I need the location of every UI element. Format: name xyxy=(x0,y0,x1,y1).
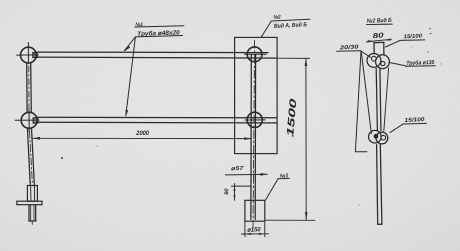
lug top edge xyxy=(374,41,384,43)
dim o57 leader line xyxy=(225,173,267,176)
speck xyxy=(429,28,431,30)
post tube below hinge 2: right edge xyxy=(32,128,35,186)
rail 2 top edge xyxy=(38,116,278,119)
speck xyxy=(358,204,359,205)
dim 60 extension top xyxy=(231,185,250,187)
top hinge hole right xyxy=(381,61,385,65)
dim 1500 vertical line xyxy=(305,58,307,219)
dim o150 left arrow xyxy=(245,233,251,235)
label 3 underline xyxy=(278,177,289,179)
weld tail line left (to base) xyxy=(355,51,361,151)
leader truba 130 to hinge xyxy=(389,62,406,66)
buried tube inner wall left xyxy=(30,205,32,221)
dim 80 right arrow xyxy=(384,39,391,41)
label 1 leader to rail 2 xyxy=(126,37,136,116)
top hinge hole left xyxy=(372,56,377,61)
post below lower hinge right edge xyxy=(380,145,382,225)
label 2 leader to plate xyxy=(261,21,271,37)
dim 2000 line xyxy=(33,137,251,139)
vertical centerline of middle assembly xyxy=(253,40,255,231)
buried tube bottom cap xyxy=(29,220,36,222)
leader 15/100 top to lug xyxy=(386,40,401,47)
speck xyxy=(440,63,441,64)
dim o150 extension left xyxy=(244,222,246,237)
label 2 underline xyxy=(271,19,310,21)
plate hinge circle 1 xyxy=(247,47,262,62)
post hidden inside sleeve: right edge xyxy=(33,186,35,201)
label 1 arrow on rail 1 xyxy=(124,46,131,52)
label 15/100 top underline xyxy=(400,39,425,42)
hinge 2 horizontal centerline xyxy=(15,119,39,121)
plate hinge 1 horizontal centerline xyxy=(244,53,266,55)
centerline tick below tube xyxy=(31,222,33,225)
middle ground sleeve (part 3) xyxy=(245,200,265,221)
post tube between hinges: left edge xyxy=(26,63,28,113)
dim 2000 right arrow xyxy=(244,137,251,140)
label 15/100 lower underline xyxy=(403,122,426,125)
weld tail line right (to lower hinge) xyxy=(361,51,371,133)
top hinge barrel left lobe xyxy=(367,54,381,68)
speck xyxy=(411,46,412,47)
label 1 leader to rail 1 xyxy=(125,37,136,51)
lower hinge hole right xyxy=(381,135,386,140)
inner tube right edge (plate to sleeve) xyxy=(254,55,256,219)
hinge plate rectangle xyxy=(235,37,278,153)
weld leader 20/30 to top hinge xyxy=(361,51,371,57)
post tube below hinge 2: left edge xyxy=(27,128,30,186)
label 1 lower underline xyxy=(135,36,182,37)
lower hinge barrel right lobe xyxy=(376,132,388,144)
post between hinges right edge xyxy=(380,68,381,130)
buried tube below flange: outer left xyxy=(28,205,30,221)
speck xyxy=(430,33,432,35)
rail 2 bottom edge xyxy=(38,121,278,124)
dim 1500 bottom arrow xyxy=(305,212,308,220)
label 3 leader to sleeve xyxy=(266,179,279,201)
buried tube inner wall right xyxy=(33,205,35,221)
plate hinge 2 horizontal centerline xyxy=(245,119,265,121)
dim 2000 left arrow xyxy=(33,137,40,140)
post upper tick above hinge 1 xyxy=(27,43,29,47)
dim 1500 extension bottom xyxy=(266,219,315,221)
base flange plate (left post) xyxy=(17,201,42,205)
dim o150 line xyxy=(241,233,268,235)
buried tube below flange: outer right xyxy=(35,205,37,221)
post hidden inside sleeve: left edge xyxy=(30,186,32,201)
post centerline dashes below hinge 2 xyxy=(30,131,33,184)
hinge circle 2 (left post lower) xyxy=(21,112,37,128)
lug right edge xyxy=(383,42,385,54)
title vid B underline xyxy=(367,23,393,26)
hinge 1 horizontal centerline xyxy=(17,54,39,56)
speck xyxy=(427,51,428,52)
post tube between hinges: right edge xyxy=(30,63,33,113)
inner tube left edge (plate to sleeve) xyxy=(250,55,252,219)
speck xyxy=(61,157,63,159)
dim 1500 top arrow xyxy=(305,58,308,66)
hinge 2 vertical centerline xyxy=(28,109,30,132)
dim 80 left arrow xyxy=(367,40,374,42)
post bottom cap xyxy=(378,223,382,225)
dim o150 right arrow xyxy=(259,233,265,235)
plate hinge circle 2 xyxy=(247,112,262,127)
ground sleeve (left post) xyxy=(27,186,37,202)
dim o150 extension right xyxy=(264,222,266,237)
hinge circle 1 (left post top) xyxy=(21,47,37,63)
dim 1500 extension top (rail1 bottom prolonged) xyxy=(277,57,310,59)
leader 15/100 lower to lower hinge xyxy=(390,124,403,133)
post centerline dashes between hinges xyxy=(28,66,30,110)
label 1 upper underline xyxy=(135,26,184,27)
post below lower hinge left edge xyxy=(377,145,378,225)
label 1 arrow on rail 2 xyxy=(126,110,129,117)
brace line top hinge to lower hinge xyxy=(384,68,389,131)
rail 1 end cap in hinge 1 xyxy=(33,53,37,58)
top hinge barrel right lobe xyxy=(376,55,390,69)
dim 80 line xyxy=(367,39,392,42)
lower hinge barrel left lobe xyxy=(369,130,382,143)
label truba 130 underline xyxy=(406,65,436,68)
dim 60 top arrow xyxy=(233,186,235,191)
dim 60 bottom arrow xyxy=(233,195,235,200)
dim o57 arrow xyxy=(260,173,267,176)
lower hinge hole left (inked) xyxy=(374,134,379,139)
speck xyxy=(96,145,97,146)
hinge 1 vertical centerline xyxy=(27,47,29,63)
post between hinges left edge xyxy=(376,69,377,131)
weld tail bottom horizontal xyxy=(355,151,367,153)
lug left edge xyxy=(373,43,375,54)
label 20/30 underline xyxy=(337,50,361,53)
rail 2 end cap in hinge 2 xyxy=(33,118,38,123)
dim 60 vertical line xyxy=(234,184,236,201)
rail 1 top edge xyxy=(37,51,268,54)
rail 1 bottom edge xyxy=(37,57,277,58)
